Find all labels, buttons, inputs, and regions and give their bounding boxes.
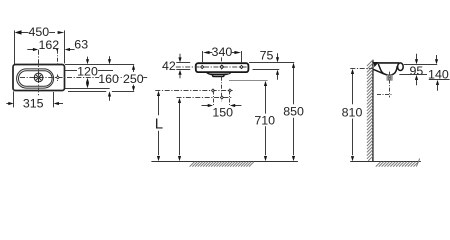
tap centerline (vertical, above slab) (221, 57, 223, 70)
dim 315 arrows (6, 103, 9, 105)
floor hatching (right view) (376, 158, 420, 166)
lower dim line (unlabeled) (179, 102, 181, 155)
fixing holes vertical extension dashes (214, 91, 230, 107)
svg-text:42: 42 (162, 59, 176, 73)
dim 162 arrow (outside left, pointing right) (27, 49, 33, 51)
svg-text:75: 75 (260, 49, 274, 63)
dim 162 right end mark at side hole line (56, 49, 59, 52)
horizontal centerline (20, 77, 148, 79)
dim 140 up arrow (436, 80, 439, 85)
wall line (372, 60, 374, 162)
svg-text:160: 160 (98, 72, 119, 86)
bowl front extension line (65, 88, 110, 90)
svg-text:L: L (155, 116, 163, 133)
side fixing hole (diamond) (56, 76, 60, 80)
bowl inner rim (19, 71, 53, 87)
dim 450 extension line right (64, 30, 66, 63)
810 top leader (dash-dot) (350, 68, 373, 70)
rect bottom extension line (68, 91, 134, 93)
apron line extension (right) (253, 69, 280, 71)
bowl underside extension (399, 74, 427, 76)
svg-text:810: 810 (342, 106, 363, 120)
basin top extension (right) (249, 62, 294, 64)
dim L line (158, 95, 160, 155)
wall hatching (367, 60, 373, 161)
710 top leader (229, 80, 268, 82)
faucet hole centerline (vertical) (38, 50, 40, 96)
top edge extension line (right) (65, 64, 134, 66)
dim 160 text (99, 74, 118, 83)
dim 850 line (293, 68, 295, 156)
hole extension line left (202, 51, 204, 63)
dim 140 down arrow (436, 55, 438, 60)
dim 150 arrows (202, 105, 209, 107)
upper fixing centerline (dash-dot) (155, 90, 232, 92)
drain bottom extension (429, 79, 450, 81)
right wall fixing diamond (228, 88, 232, 92)
svg-text:340: 340 (212, 45, 233, 59)
svg-text:162: 162 (38, 38, 59, 52)
lower outlet centerline (dash-dot) (177, 97, 233, 99)
drain centerline (vertical dash-dot) (389, 72, 391, 98)
dim 450 line + arrows (21, 32, 55, 34)
basin slab (front view) (196, 63, 249, 72)
waste outlet stub (213, 75, 225, 77)
basin profile: bowl section (378, 64, 397, 75)
outlet centerline (horizontal dash-dot) (377, 94, 392, 96)
basin profile: rim lip at wall (374, 62, 379, 67)
dim 42 arrows (179, 54, 181, 58)
dim 340 line (207, 52, 237, 54)
middle tap hole diamond (219, 64, 224, 69)
svg-text:63: 63 (74, 37, 88, 51)
floor line (right view) (350, 161, 421, 163)
dim 315 extension lines (14, 91, 54, 107)
basin profile: top rim (374, 62, 400, 64)
floor hatching (190, 162, 254, 167)
dim 250 text (124, 74, 143, 83)
floor line (middle view) (151, 161, 298, 163)
basin top extension (right) (404, 64, 437, 66)
dim 95 down arrow (416, 54, 418, 60)
right tap hole diamond (239, 65, 243, 69)
120 mid leader line (65, 70, 113, 72)
hole extension line right (241, 51, 243, 63)
bowl underside bulge (207, 73, 231, 75)
dim 95 up arrow (415, 75, 418, 80)
dim 75 arrows (277, 53, 279, 58)
dim 42 leader lines (176, 63, 190, 70)
dim 63 arrow (outside right, pointing left) (68, 49, 74, 51)
svg-text:120: 120 (77, 64, 98, 78)
left wall fixing diamond (211, 88, 215, 92)
svg-text:250: 250 (123, 72, 144, 86)
svg-text:150: 150 (212, 105, 233, 119)
left tap hole diamond (200, 65, 204, 69)
svg-text:850: 850 (283, 105, 304, 119)
bulge inner line (209, 72, 229, 74)
svg-text:315: 315 (23, 96, 44, 110)
dim 710 line (265, 86, 267, 156)
faucet hole symbol (34, 73, 43, 82)
side hole centerline (vertical) (57, 50, 59, 82)
dim 120 arrows (87, 57, 89, 60)
drain fitting (387, 75, 392, 81)
dim 340 text (212, 47, 231, 57)
bowl outer rim (17, 69, 54, 88)
dim 120 text (77, 67, 98, 76)
basin profile: underside (374, 69, 385, 74)
basin outline (top view) (13, 65, 65, 91)
dim 810 line (352, 74, 354, 156)
dim 450 extension line left (14, 30, 16, 64)
outlet diamond (220, 95, 224, 99)
outlet vertical dash line (221, 77, 223, 101)
dim 250 dimension line (vertical, inside arrows) (133, 69, 135, 72)
svg-text:710: 710 (254, 113, 275, 127)
tap holes centerline (horizontal) (176, 66, 248, 68)
dim 160 arrows (109, 56, 111, 60)
basin profile: front rim hook (398, 63, 404, 71)
